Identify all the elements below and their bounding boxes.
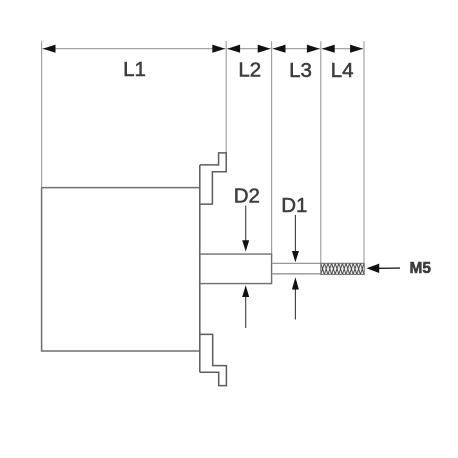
L3 left arrowhead xyxy=(273,45,286,53)
dimension line L1 xyxy=(43,48,226,50)
svg-text:L3: L3 xyxy=(289,59,312,82)
extension line L1/L2 boundary xyxy=(225,41,227,153)
flange back face vertical xyxy=(199,165,201,372)
D1 leader arrow (up) xyxy=(294,290,296,320)
shaft D1 section bottom edge xyxy=(272,273,321,275)
L1 right arrowhead xyxy=(212,45,225,53)
L2 left arrowhead xyxy=(227,45,240,53)
svg-text:L2: L2 xyxy=(238,59,261,82)
flange top tab outline xyxy=(200,153,226,204)
L4 left arrowhead xyxy=(322,45,335,53)
D1 leader arrow (down) xyxy=(294,215,296,251)
L1 left arrowhead xyxy=(43,45,56,53)
extension line right of L4 xyxy=(363,41,365,263)
M5 leader arrow (left) xyxy=(377,267,400,269)
dimension line L4 xyxy=(322,48,363,50)
extension line left of L1 xyxy=(41,41,43,188)
dimension line L2 xyxy=(227,48,270,50)
L3 right arrowhead xyxy=(307,45,320,53)
svg-text:D1: D1 xyxy=(281,194,307,217)
svg-text:D2: D2 xyxy=(234,185,260,208)
D2 leader arrow (down) xyxy=(245,206,247,241)
L2 right arrowhead xyxy=(258,45,271,53)
D2 leader arrow (up) xyxy=(245,297,247,329)
L4 right arrowhead xyxy=(350,45,363,53)
shaft D1 section top edge xyxy=(272,262,321,264)
extension line L3/L4 boundary xyxy=(320,41,322,263)
motor body rectangle xyxy=(42,188,200,351)
svg-text:L4: L4 xyxy=(331,59,354,82)
svg-text:M5: M5 xyxy=(410,260,432,277)
flange bottom tab outline xyxy=(200,334,227,385)
shaft D2 cylinder xyxy=(200,254,272,284)
extension line L2/L3 boundary xyxy=(271,41,273,254)
threaded section M5 xyxy=(321,263,364,274)
svg-text:L1: L1 xyxy=(123,58,146,81)
dimension line L3 xyxy=(273,48,320,50)
